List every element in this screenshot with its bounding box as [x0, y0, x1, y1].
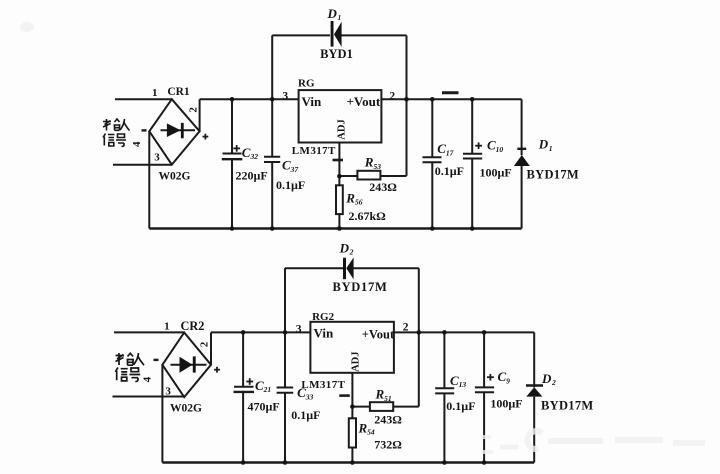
svg-text:Vin: Vin: [314, 326, 335, 341]
diode D1 BYD1: [331, 21, 342, 47]
wire D2 loop top left: [285, 267, 343, 269]
plus mark at C32: [233, 145, 240, 152]
svg-text:0.1µF: 0.1µF: [291, 408, 320, 422]
char ru (enter): [134, 353, 145, 365]
wire ADJ pin: [338, 143, 340, 177]
watermark smudge bottom right: [481, 431, 705, 452]
tick on ADJ wire: [333, 159, 344, 162]
svg-text:C32: C32: [242, 145, 258, 161]
svg-text:100µF: 100µF: [480, 166, 512, 180]
svg-text:2: 2: [198, 341, 210, 347]
capacitor C32: [222, 99, 243, 228]
capacitor C21: [234, 332, 255, 462]
svg-text:C37: C37: [282, 158, 298, 174]
capacitor C9: [475, 332, 494, 462]
svg-text:0.1µF: 0.1µF: [435, 164, 464, 178]
svg-text:BYD17M: BYD17M: [541, 398, 594, 412]
svg-text:243Ω: 243Ω: [374, 413, 402, 427]
svg-text:D2: D2: [541, 371, 556, 387]
resistor R54: [349, 407, 356, 463]
wire D1 loop top right: [341, 34, 407, 36]
svg-text:CR2: CR2: [180, 319, 204, 333]
plus mark at CR1: [203, 134, 209, 140]
capacitor C17: [423, 99, 442, 228]
minus mark at CR1: [142, 129, 147, 131]
svg-text:1: 1: [164, 320, 170, 332]
svg-text:0.1µF: 0.1µF: [276, 178, 305, 192]
wire D1 loop right / R53 right vertical: [406, 35, 408, 176]
svg-text:1: 1: [152, 87, 158, 99]
label input signal chinese bottom: [115, 353, 144, 382]
wire ADJ pin bottom: [351, 373, 353, 407]
labels top circuit: [103, 6, 579, 223]
bridge rectifier CR1 W02G: [149, 99, 199, 164]
svg-text:ADJ: ADJ: [351, 351, 362, 371]
regulator U1 RG LM317T box: [299, 90, 382, 142]
svg-text:100µF: 100µF: [490, 397, 522, 411]
wire ground rail top circuit: [149, 227, 521, 229]
resistor R56: [336, 176, 343, 228]
wire CR1 minus output vertical: [148, 131, 150, 228]
svg-text:4: 4: [131, 141, 143, 147]
wire CR2 plus output vertical: [210, 332, 212, 364]
wire D1 loop left: [271, 35, 273, 99]
polarity minus mark above wire: [442, 91, 459, 94]
char xin: [115, 368, 127, 381]
wire ground rail bottom circuit: [162, 461, 534, 463]
svg-text:D1: D1: [538, 136, 553, 153]
bridge rectifier CR2 W02G: [162, 333, 211, 398]
label input signal chinese top: [103, 119, 130, 147]
capacitor C13: [435, 332, 454, 462]
char hao: [130, 368, 141, 382]
diode D2 BYD17M output: [526, 386, 543, 463]
diode D1 BYD17M output: [514, 149, 530, 229]
svg-text:BYD17M: BYD17M: [527, 167, 580, 181]
wire D1 loop top left: [272, 34, 330, 36]
svg-text:C9: C9: [498, 369, 511, 385]
wire output right vertical: [521, 99, 523, 155]
svg-text:BYD17M: BYD17M: [333, 280, 388, 294]
plus mark at C21: [246, 378, 253, 385]
wire output right vertical bottom: [533, 332, 535, 387]
resistor R51: [352, 402, 418, 411]
svg-text:243Ω: 243Ω: [369, 180, 397, 194]
resistor R53: [339, 171, 406, 180]
svg-text:W02G: W02G: [170, 403, 202, 415]
svg-text:2.67kΩ: 2.67kΩ: [349, 209, 387, 223]
svg-text:C13: C13: [450, 373, 466, 389]
tick on ADJ wire bottom: [339, 394, 350, 397]
svg-text:CR1: CR1: [167, 86, 190, 98]
svg-text:LM317T: LM317T: [292, 145, 336, 157]
char hao: [116, 134, 126, 147]
svg-text:BYD1: BYD1: [320, 47, 353, 61]
minus mark at CR2: [154, 359, 159, 361]
diode D2 BYD17M top: [343, 258, 354, 280]
junction dots bottom circuit: [241, 330, 487, 465]
wire input bottom 3: [113, 164, 172, 166]
svg-text:D1: D1: [327, 6, 342, 22]
capacitor C10: [463, 99, 482, 228]
char ru (enter): [120, 119, 130, 131]
BOTTOM CIRCUIT: [113, 258, 544, 463]
wire D2 loop left: [284, 268, 286, 332]
svg-text:ADJ: ADJ: [337, 119, 348, 139]
char xin: [103, 134, 115, 147]
capacitor C37: [264, 99, 280, 228]
svg-text:220µF: 220µF: [236, 169, 268, 183]
svg-text:2: 2: [403, 322, 409, 334]
faint smudge top left: [20, 22, 34, 32]
svg-text:732Ω: 732Ω: [374, 437, 402, 451]
wire main positive rail right: [381, 98, 521, 100]
wire CR2 minus output vertical: [161, 365, 163, 463]
svg-text:Vin: Vin: [302, 94, 323, 109]
junction dots top circuit: [230, 97, 475, 231]
wire input top 1 CR2: [114, 331, 184, 333]
svg-text:R53: R53: [364, 155, 381, 171]
plus mark at CR2: [214, 367, 220, 373]
svg-text:R56: R56: [345, 190, 362, 206]
wire main positive rail right bottom circuit: [394, 331, 534, 333]
char shu (input): [116, 353, 125, 365]
svg-text:R54: R54: [358, 420, 375, 436]
svg-text:D2: D2: [339, 241, 354, 257]
svg-text:2: 2: [187, 107, 199, 113]
wire input bottom 3 CR2: [113, 396, 185, 398]
wire D2 loop top right: [354, 267, 419, 269]
svg-text:3: 3: [154, 152, 160, 164]
svg-text:3: 3: [282, 91, 288, 103]
svg-text:0.1µF: 0.1µF: [446, 399, 475, 413]
wire D2 loop right / R51 right vertical: [418, 268, 420, 406]
svg-text:W02G: W02G: [159, 171, 191, 183]
regulator U2 RG2 LM317T box: [310, 322, 394, 373]
svg-text:LM317T: LM317T: [301, 379, 345, 391]
svg-text:RG: RG: [298, 78, 315, 90]
wire main positive rail left: [200, 98, 299, 100]
svg-text:+Vout: +Vout: [362, 327, 395, 341]
svg-text:R51: R51: [375, 387, 392, 403]
svg-text:3: 3: [296, 323, 302, 335]
wire main positive rail left bottom circuit: [211, 331, 310, 333]
svg-text:C21: C21: [255, 378, 271, 394]
svg-text:+Vout: +Vout: [347, 94, 381, 109]
plus mark at C9: [487, 374, 494, 381]
svg-text:C17: C17: [437, 141, 453, 157]
svg-text:3: 3: [165, 385, 171, 397]
svg-text:C10: C10: [487, 138, 503, 154]
svg-text:RG2: RG2: [312, 311, 335, 323]
svg-text:470µF: 470µF: [248, 400, 280, 414]
capacitor C33: [277, 332, 294, 462]
wire input top 1: [115, 98, 172, 100]
char shu (input): [103, 119, 111, 131]
wire CR1 plus output vertical: [199, 99, 201, 131]
svg-text:2: 2: [389, 91, 395, 103]
plus mark at C10: [475, 142, 482, 149]
svg-text:4: 4: [142, 376, 154, 382]
